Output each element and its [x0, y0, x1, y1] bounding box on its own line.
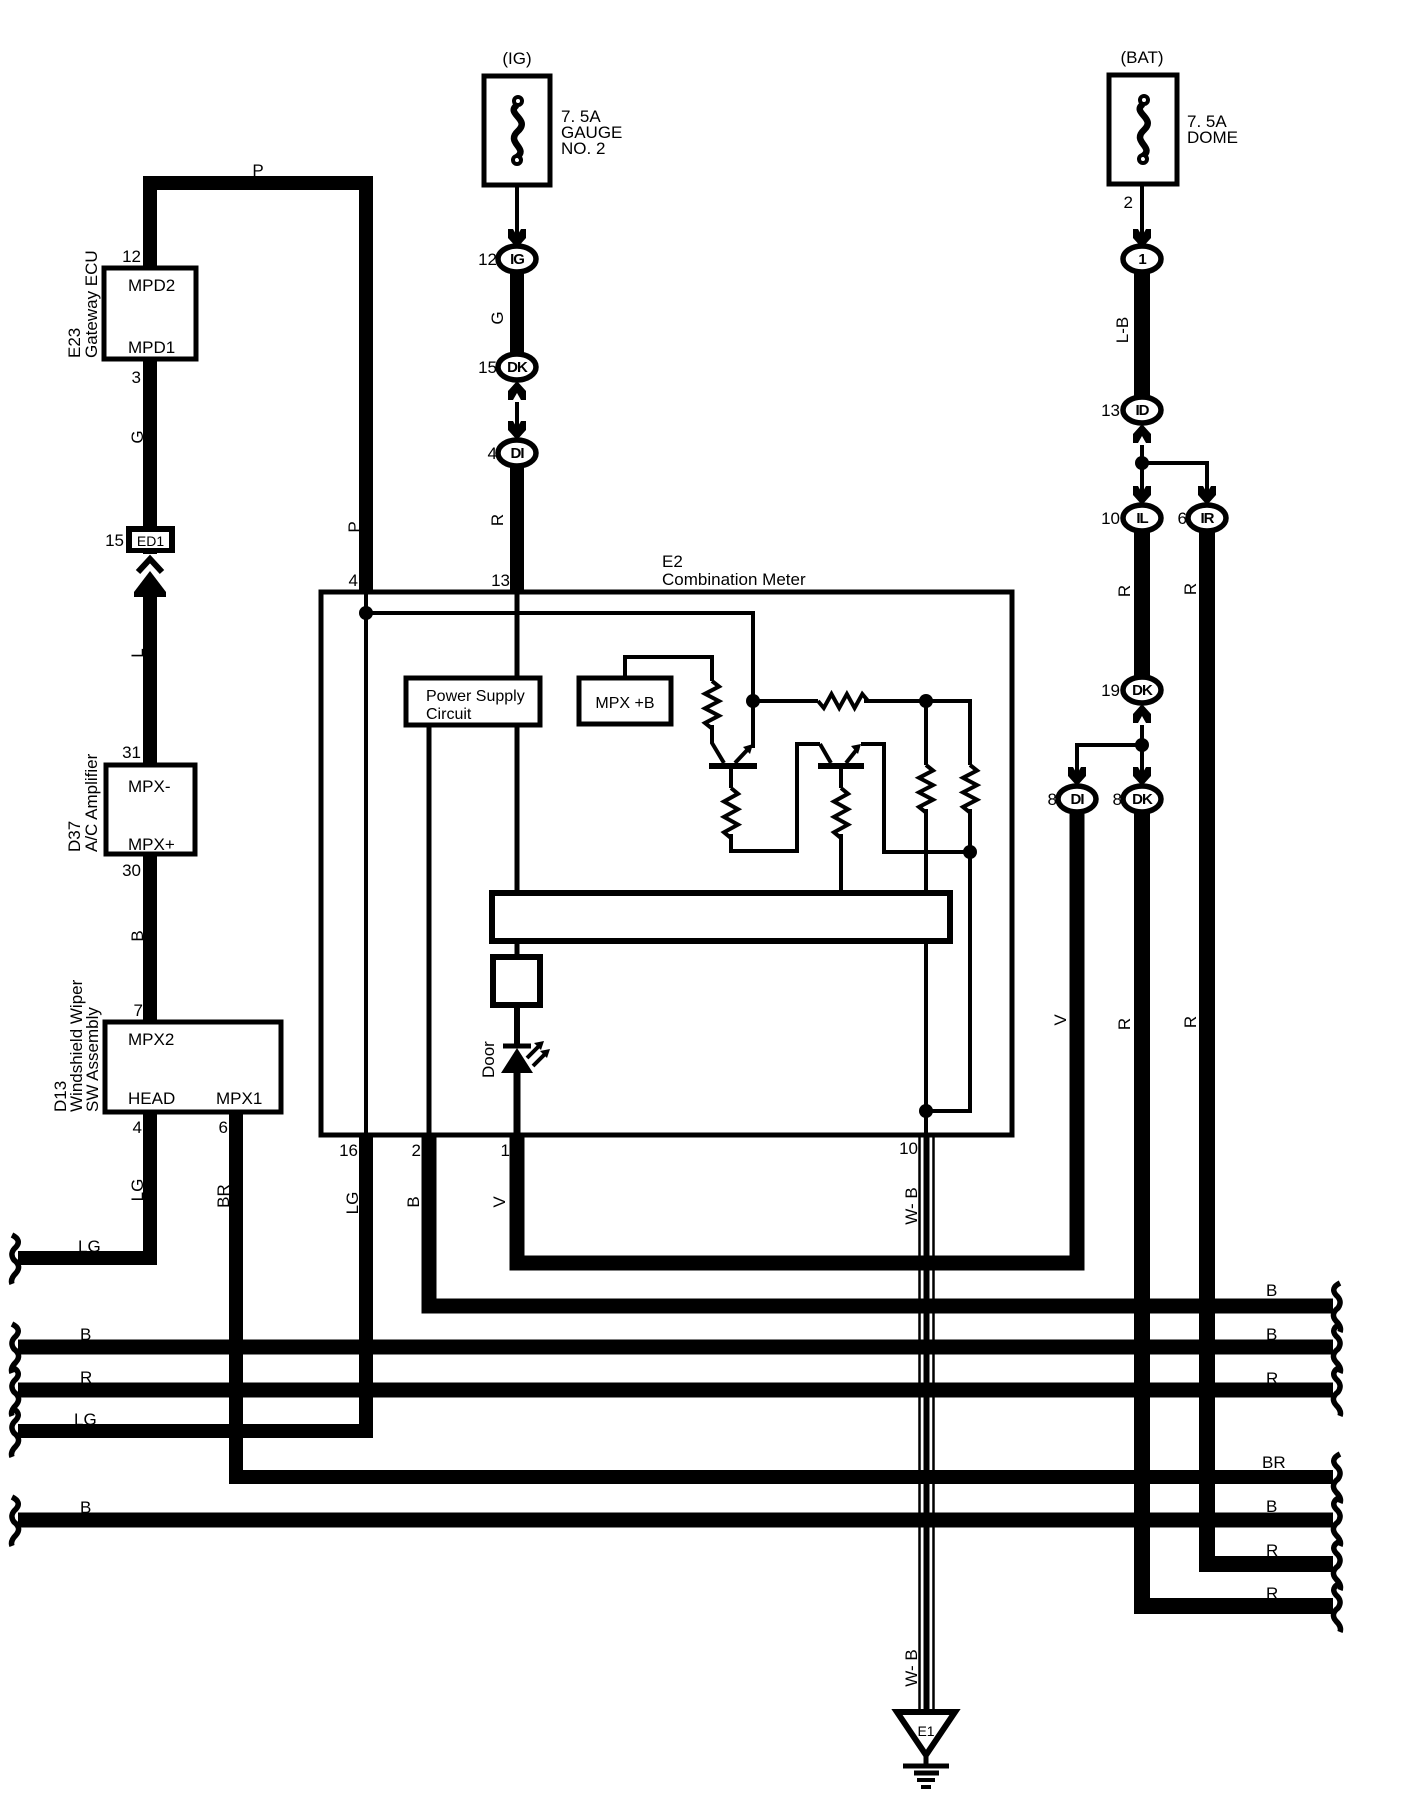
svg-text:B: B — [1266, 1497, 1277, 1516]
svg-text:P: P — [252, 161, 263, 180]
svg-text:LG: LG — [343, 1192, 362, 1215]
node W-B — [919, 1104, 933, 1118]
wire B from D37 pin 30 to D13 pin 7 — [143, 854, 157, 1022]
wire R2 to Q2 emitter path — [731, 744, 820, 851]
connector 8 DI — [1058, 786, 1096, 812]
svg-text:V: V — [1051, 1014, 1070, 1026]
svg-text:DK: DK — [507, 359, 528, 376]
wire Q1 base down to R2 — [729, 766, 733, 788]
svg-text:DK: DK — [1132, 791, 1153, 808]
node junction on pin4 wire — [359, 606, 373, 620]
wire BR from D13 pin 6 to harness (right) — [236, 1112, 1333, 1477]
connector 15 DK — [498, 354, 536, 380]
svg-text:HEAD: HEAD — [128, 1089, 175, 1108]
wire node to R5 — [926, 701, 970, 765]
svg-text:A/C Amplifier: A/C Amplifier — [82, 753, 101, 852]
wire R from IL to DK — [1134, 529, 1150, 679]
svg-text:LG: LG — [74, 1410, 97, 1429]
svg-text:3: 3 — [132, 368, 141, 387]
svg-text:IR: IR — [1201, 510, 1215, 527]
wire internal pin13 down — [515, 592, 520, 678]
wire L-B from connector 1 to ID — [1134, 270, 1150, 399]
connector ED1 — [126, 526, 175, 553]
connector box E23 Gateway ECU — [104, 268, 196, 359]
resistor R5 — [963, 765, 977, 812]
box MPX +B — [579, 678, 671, 724]
mating arrows below ID — [1133, 424, 1151, 443]
wire internal PS box to bus bar — [515, 725, 520, 893]
svg-text:2: 2 — [412, 1141, 421, 1160]
svg-text:L-B: L-B — [1113, 317, 1132, 343]
svg-text:Door: Door — [479, 1041, 498, 1078]
svg-text:W- B: W- B — [902, 1187, 921, 1224]
svg-text:MPX+: MPX+ — [128, 835, 175, 854]
svg-text:DOME: DOME — [1187, 128, 1238, 147]
svg-text:MPX1: MPX1 — [216, 1089, 262, 1108]
svg-text:DK: DK — [1132, 682, 1153, 699]
svg-text:10: 10 — [899, 1139, 918, 1158]
wire Q1 collector up to node — [751, 613, 755, 748]
svg-text:R: R — [488, 514, 507, 526]
svg-text:(IG): (IG) — [502, 49, 531, 68]
bus wire B (upper, full width) — [18, 1340, 1333, 1355]
resistor R2 — [724, 788, 738, 838]
wire R1 to Q1 emitter — [712, 725, 724, 763]
svg-text:R: R — [1115, 1018, 1134, 1030]
wire junction DK to DI and DK — [1140, 725, 1144, 784]
svg-text:Combination Meter: Combination Meter — [662, 570, 806, 589]
wire G from IG to DK — [510, 270, 524, 356]
svg-text:E1: E1 — [917, 1723, 934, 1739]
bus wire B (lower, full width) — [18, 1513, 1333, 1528]
resistor R6 (Q2 base) — [834, 788, 848, 838]
svg-text:R: R — [1181, 583, 1200, 595]
svg-text:1: 1 — [1138, 251, 1146, 268]
svg-text:R: R — [1266, 1541, 1278, 1560]
svg-text:B: B — [80, 1325, 91, 1344]
svg-text:B: B — [128, 930, 147, 941]
svg-text:Power Supply: Power Supply — [426, 688, 525, 705]
mating arrows below DK 19 — [1133, 704, 1151, 723]
wire P from gateway ECU pin12 up and over to meter pin 4 — [150, 183, 366, 592]
svg-text:B: B — [1266, 1325, 1277, 1344]
svg-text:(BAT): (BAT) — [1120, 48, 1163, 67]
wire internal node to Q1 collector — [366, 613, 753, 698]
resistor R1 — [705, 681, 719, 728]
svg-text:B: B — [1266, 1281, 1277, 1300]
resistor R3 (horizontal) — [753, 699, 818, 703]
wire square to LED — [514, 1005, 520, 1045]
connector 6 IR — [1188, 505, 1226, 531]
wire R5 down to node — [968, 809, 972, 852]
wire R from DK 8 down to harness right — [1142, 810, 1333, 1606]
svg-text:IG: IG — [510, 251, 524, 268]
wire V from meter pin 1 to DI 8 — [517, 810, 1077, 1263]
connector box D37 A/C Amplifier — [106, 765, 195, 854]
transistor Q2 — [818, 763, 864, 769]
svg-text:7: 7 — [134, 1001, 143, 1020]
svg-text:DI: DI — [1071, 791, 1085, 808]
svg-text:E2: E2 — [662, 552, 683, 571]
svg-text:30: 30 — [122, 861, 141, 880]
wire LG from D13 pin 4 to harness (left) — [18, 1112, 150, 1258]
wire Q2 base to R6 to bus bar — [839, 766, 843, 788]
bus wire R (full width) — [18, 1383, 1333, 1398]
wire LG from meter pin 16 to harness left — [18, 1135, 366, 1431]
connector 12 IG — [498, 246, 536, 272]
ground E1 — [897, 1712, 955, 1755]
node R5/Q2 — [963, 845, 977, 859]
svg-text:6: 6 — [1178, 509, 1187, 528]
wire G from E23 pin 3 to ED1 — [143, 359, 157, 526]
svg-text:DI: DI — [511, 445, 525, 462]
connector 10 IL — [1123, 505, 1161, 531]
svg-text:LG: LG — [128, 1179, 147, 1202]
svg-text:R: R — [1266, 1369, 1278, 1388]
svg-text:BR: BR — [214, 1184, 233, 1208]
wire Q2 collector to junction (right) — [861, 744, 966, 852]
node R3 right — [919, 694, 933, 708]
svg-text:B: B — [80, 1498, 91, 1517]
svg-text:MPX-: MPX- — [128, 777, 171, 796]
svg-text:MPX +B: MPX +B — [595, 695, 654, 712]
svg-text:BR: BR — [1262, 1453, 1286, 1472]
wire R4 to bus bar — [924, 809, 928, 893]
svg-text:R: R — [1115, 585, 1134, 597]
resistor R4 — [919, 765, 933, 812]
svg-text:R: R — [1181, 1016, 1200, 1028]
wire junction ID to IL and IR — [1140, 445, 1144, 503]
mating arrows DK to DI — [508, 381, 526, 400]
wire bus bar to indicator square — [515, 941, 520, 957]
connector 13 ID — [1123, 397, 1161, 423]
svg-text:IL: IL — [1136, 510, 1148, 527]
connector 4 DI — [498, 440, 536, 466]
svg-text:16: 16 — [339, 1141, 358, 1160]
svg-text:MPX2: MPX2 — [128, 1030, 174, 1049]
svg-text:Gateway ECU: Gateway ECU — [82, 250, 101, 358]
svg-text:6: 6 — [219, 1118, 228, 1137]
svg-text:31: 31 — [122, 743, 141, 762]
svg-text:L: L — [128, 648, 147, 657]
wire R5 node down to W-B node — [926, 852, 970, 1111]
wire internal pin 2 from PS box — [427, 725, 432, 1135]
connector mating chevron at ED1 — [134, 554, 166, 580]
wire internal W-B: bus bar to pin 10 — [924, 941, 928, 1135]
svg-text:15: 15 — [478, 358, 497, 377]
wire W-B (shielded) from pin 10 to ground E1 — [918, 1137, 921, 1712]
wire L from ED1 to D37 pin 31 — [143, 553, 157, 765]
svg-text:P: P — [345, 521, 364, 532]
svg-text:SW Assembly: SW Assembly — [83, 1007, 102, 1112]
fuse F1 (IG) 7.5A GAUGE NO.2 — [484, 76, 550, 185]
svg-text:MPD1: MPD1 — [128, 338, 175, 357]
connector 1 — [1123, 246, 1161, 272]
ECU box E2 Combination Meter — [321, 592, 1012, 1135]
svg-text:4: 4 — [133, 1118, 142, 1137]
wire LED to pin 1 — [514, 1073, 521, 1135]
fuse F2 (BAT) 7.5A DOME — [1109, 75, 1177, 184]
wire B from meter pin 2 to harness right — [429, 1135, 1333, 1306]
wire internal from pin 4 to pin 16 — [364, 592, 368, 1135]
wire R from DI to meter pin 13 — [510, 464, 524, 592]
svg-text:B: B — [404, 1196, 423, 1207]
node Q1 collector / R3 — [746, 694, 760, 708]
svg-text:ID: ID — [1136, 402, 1150, 419]
svg-text:19: 19 — [1101, 681, 1120, 700]
svg-text:8: 8 — [1048, 790, 1057, 809]
svg-text:13: 13 — [1101, 401, 1120, 420]
indicator square — [493, 957, 540, 1005]
svg-text:LG: LG — [78, 1237, 101, 1256]
wire node to R4 — [924, 701, 928, 765]
svg-text:4: 4 — [488, 444, 497, 463]
svg-text:NO. 2: NO. 2 — [561, 139, 605, 158]
svg-text:R: R — [1266, 1584, 1278, 1603]
svg-text:10: 10 — [1101, 509, 1120, 528]
wire MPX+B to resistor R1 — [625, 657, 712, 681]
svg-text:12: 12 — [478, 250, 497, 269]
svg-text:1: 1 — [501, 1141, 510, 1160]
svg-text:8: 8 — [1113, 790, 1122, 809]
wire fuse IG to connector IG — [515, 185, 519, 246]
svg-text:Circuit: Circuit — [426, 706, 472, 723]
svg-text:V: V — [490, 1196, 509, 1208]
svg-text:2: 2 — [1124, 193, 1133, 212]
svg-text:W- B: W- B — [902, 1649, 921, 1686]
svg-text:4: 4 — [349, 571, 358, 590]
wire R from IR down to harness right — [1207, 529, 1333, 1564]
LED Door (bar + triangle + arrows) — [503, 1044, 531, 1049]
connector 8 DK — [1123, 786, 1161, 812]
svg-text:12: 12 — [122, 247, 141, 266]
wire fuse BAT pin 2 to connector 1 — [1140, 184, 1144, 246]
svg-text:G: G — [128, 430, 147, 443]
bus bar (internal connector strip) — [492, 893, 950, 941]
svg-text:MPD2: MPD2 — [128, 276, 175, 295]
svg-text:15: 15 — [105, 531, 124, 550]
svg-text:13: 13 — [491, 571, 510, 590]
svg-text:ED1: ED1 — [137, 533, 164, 549]
connector box D13 Windshield Wiper SW Assembly — [105, 1022, 281, 1112]
transistor Q1 — [709, 763, 757, 769]
box Power Supply Circuit — [406, 678, 540, 725]
connector 19 DK — [1123, 677, 1161, 703]
svg-text:G: G — [488, 311, 507, 324]
svg-text:R: R — [80, 1368, 92, 1387]
